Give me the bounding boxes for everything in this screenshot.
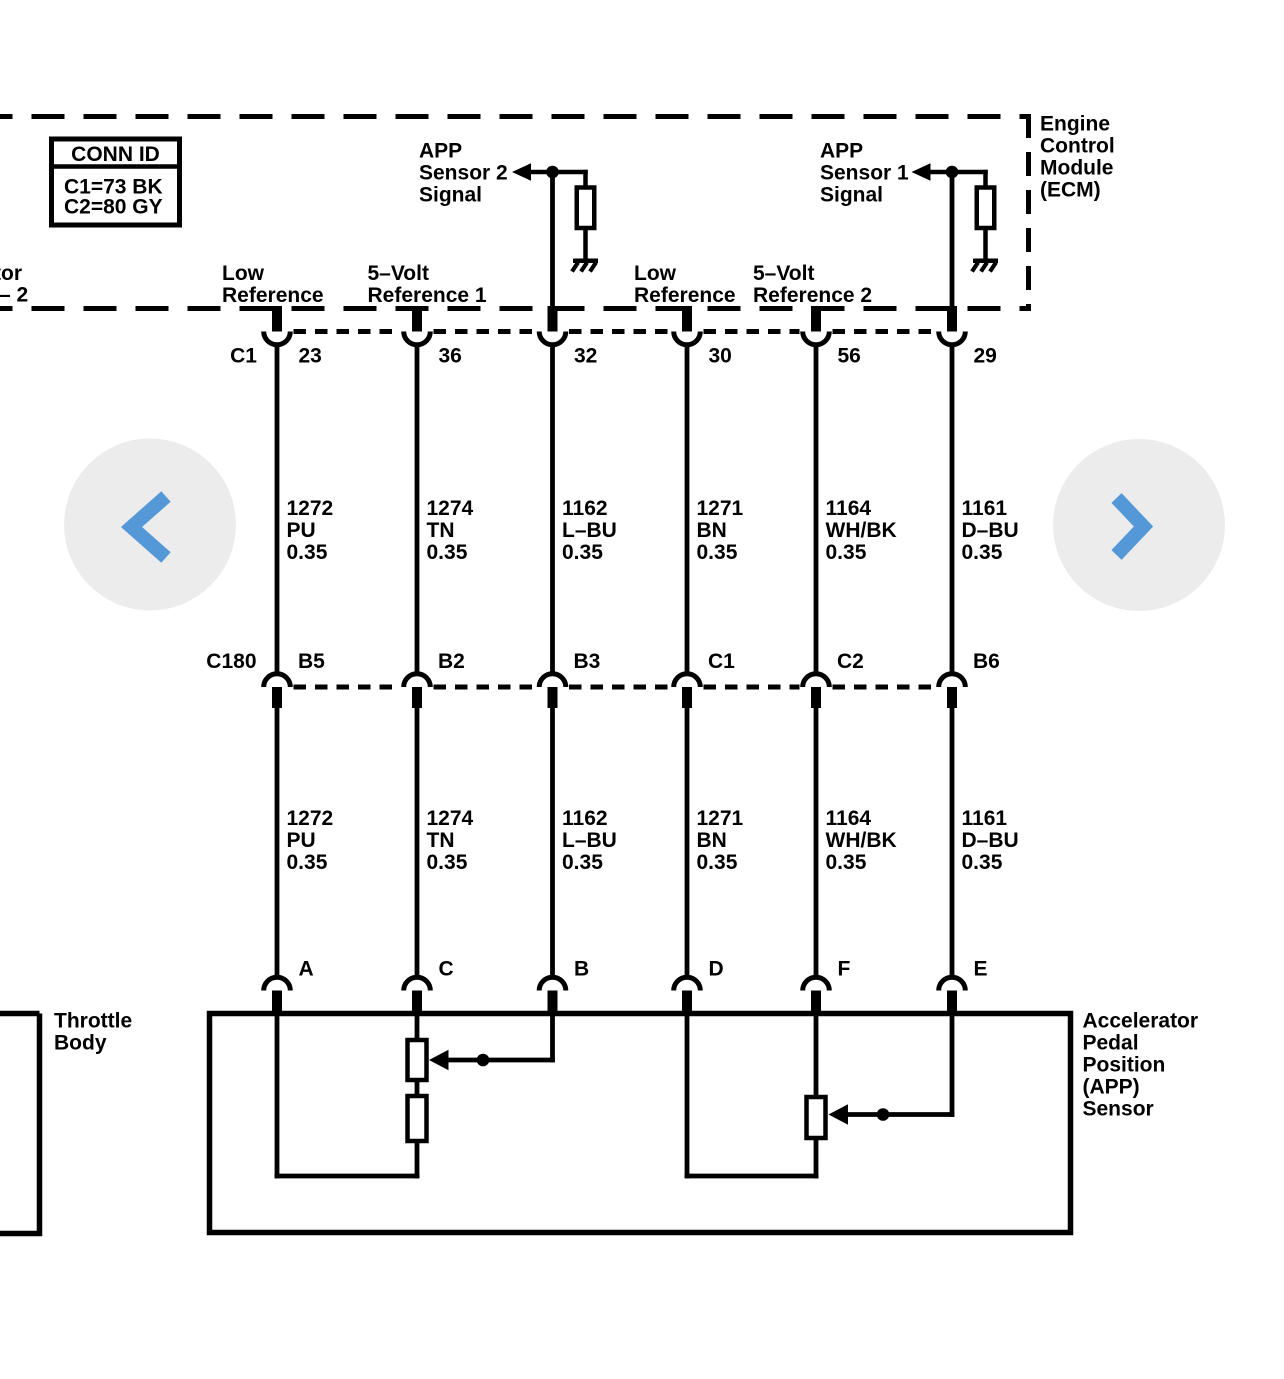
svg-text:1161: 1161 [962,807,1008,830]
svg-text:WH/BK: WH/BK [826,519,897,542]
svg-text:Reference: Reference [634,284,736,307]
svg-text:1161: 1161 [962,497,1008,520]
svg-text:0.35: 0.35 [697,541,738,564]
svg-text:C2: C2 [837,650,864,673]
svg-text:Module: Module [1040,157,1114,180]
svg-text:0.35: 0.35 [826,541,867,564]
svg-text:1162: 1162 [562,497,608,520]
svg-text:1274: 1274 [427,497,474,520]
svg-text:32: 32 [574,345,597,368]
svg-text:0.35: 0.35 [287,851,328,874]
svg-text:D–BU: D–BU [962,519,1019,542]
svg-text:APP: APP [419,140,462,163]
svg-text:F: F [838,958,851,981]
svg-text:B2: B2 [438,650,465,673]
svg-text:29: 29 [974,345,997,368]
svg-text:(ECM): (ECM) [1040,179,1101,202]
svg-text:L–BU: L–BU [562,829,617,852]
svg-text:Engine: Engine [1040,113,1110,136]
svg-text:Sensor: Sensor [1083,1097,1154,1120]
svg-text:1274: 1274 [427,807,474,830]
svg-text:C1: C1 [708,650,735,673]
svg-text:Body: Body [54,1031,107,1054]
svg-text:Signal: Signal [820,184,883,207]
svg-text:PU: PU [287,829,316,852]
svg-text:56: 56 [838,345,861,368]
svg-text:APP: APP [820,140,863,163]
svg-text:B: B [574,958,589,981]
svg-text:36: 36 [439,345,462,368]
svg-text:5–Volt: 5–Volt [368,262,429,285]
svg-text:D–BU: D–BU [962,829,1019,852]
svg-text:Reference: Reference [222,284,324,307]
svg-text:C2=80 GY: C2=80 GY [64,196,163,219]
svg-text:0.35: 0.35 [562,851,603,874]
svg-text:0.35: 0.35 [826,851,867,874]
svg-text:BN: BN [697,519,727,542]
svg-text:1164: 1164 [826,807,872,830]
svg-text:0.35: 0.35 [697,851,738,874]
svg-text:1272: 1272 [287,807,334,830]
svg-text:1272: 1272 [287,497,334,520]
svg-text:B5: B5 [298,650,325,673]
svg-text:1271: 1271 [697,807,744,830]
svg-text:L–BU: L–BU [562,519,617,542]
svg-text:0.35: 0.35 [962,851,1003,874]
svg-text:C: C [439,958,454,981]
svg-text:0.35: 0.35 [427,851,468,874]
svg-text:Reference 2: Reference 2 [753,284,872,307]
svg-text:23: 23 [299,345,322,368]
svg-text:1162: 1162 [562,807,608,830]
svg-text:Control: Control [1040,135,1115,158]
svg-text:A: A [299,958,314,981]
svg-text:TN: TN [427,829,455,852]
svg-text:0.35: 0.35 [427,541,468,564]
svg-text:B3: B3 [574,650,601,673]
svg-text:E: E [974,958,988,981]
svg-text:Low: Low [634,262,677,285]
svg-text:1164: 1164 [826,497,872,520]
svg-text:Low: Low [222,262,265,285]
svg-text:5–Volt: 5–Volt [753,262,814,285]
svg-text:0.35: 0.35 [287,541,328,564]
svg-text:BN: BN [697,829,727,852]
svg-text:Throttle: Throttle [54,1009,132,1032]
svg-text:0.35: 0.35 [562,541,603,564]
svg-text:D: D [709,958,724,981]
svg-text:Sensor 1: Sensor 1 [820,162,909,185]
svg-text:Signal: Signal [419,184,482,207]
svg-text:Sensor 2: Sensor 2 [419,162,508,185]
svg-text:Pedal: Pedal [1083,1031,1139,1054]
svg-text:Position: Position [1083,1053,1166,1076]
svg-text:– 2: – 2 [0,283,28,306]
svg-text:C180: C180 [206,650,256,673]
svg-text:(APP): (APP) [1083,1075,1140,1098]
svg-text:C1: C1 [230,345,257,368]
svg-text:B6: B6 [973,650,1000,673]
svg-text:30: 30 [709,345,732,368]
svg-text:Accelerator: Accelerator [1083,1009,1199,1032]
svg-text:TN: TN [427,519,455,542]
svg-text:0.35: 0.35 [962,541,1003,564]
svg-text:Reference 1: Reference 1 [368,284,487,307]
svg-text:1271: 1271 [697,497,744,520]
svg-text:tor: tor [0,262,22,285]
svg-text:WH/BK: WH/BK [826,829,897,852]
svg-text:CONN ID: CONN ID [71,143,160,166]
svg-text:PU: PU [287,519,316,542]
